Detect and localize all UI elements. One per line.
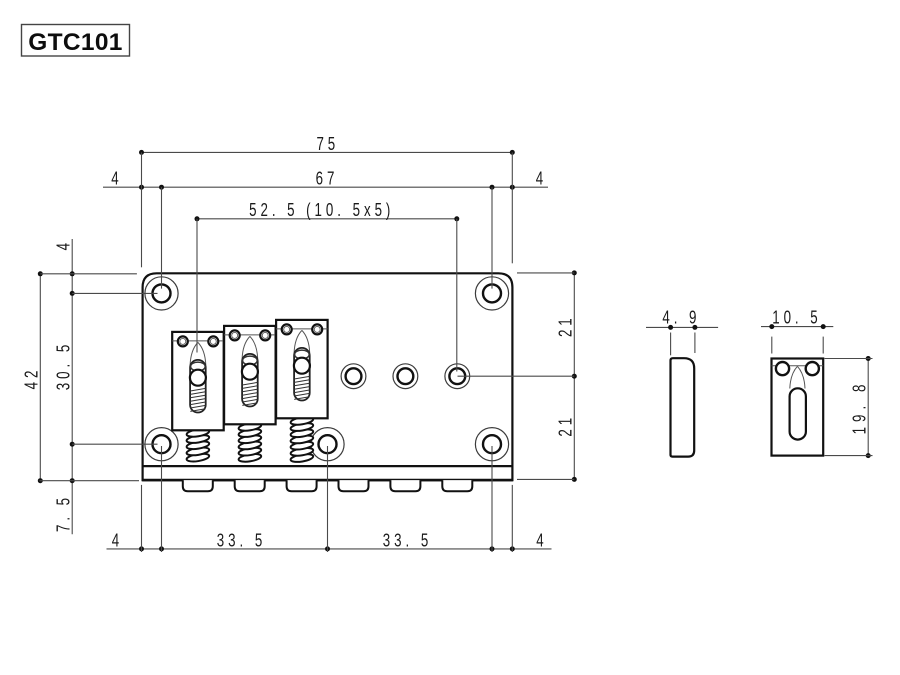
extension lines bottom: [142, 446, 513, 552]
svg-text:75: 75: [316, 134, 339, 155]
svg-text:67: 67: [316, 169, 339, 190]
GTC101 label box: [22, 25, 130, 57]
dim 4.9: [646, 307, 718, 355]
svg-text:19. 8: 19. 8: [850, 380, 871, 435]
intonation spring 2: [238, 422, 262, 463]
svg-text:52. 5 (10. 5x5): 52. 5 (10. 5x5): [249, 200, 394, 221]
string hole 6: [445, 364, 470, 389]
dim 19.8: [825, 356, 873, 458]
svg-text:GTC101: GTC101: [28, 29, 122, 56]
svg-text:30. 5: 30. 5: [54, 341, 75, 390]
svg-text:4: 4: [112, 530, 119, 551]
extension lines top: [142, 152, 513, 371]
mounting hole top-left: [145, 277, 178, 310]
dim 4 / 30.5 / 7.5 (left shared line): [54, 239, 75, 534]
svg-text:4: 4: [536, 168, 543, 189]
dim 10.5: [761, 307, 833, 353]
dim 21 / 21 (right): [556, 270, 577, 482]
string slot tab 5: [390, 480, 420, 491]
saddle top view: [772, 359, 824, 456]
svg-text:4: 4: [536, 530, 543, 551]
string slot tab 2: [235, 480, 265, 491]
string slot tab 4: [339, 480, 369, 491]
intonation spring 3: [290, 416, 314, 464]
string slot tab 6: [442, 480, 472, 491]
svg-text:21: 21: [556, 414, 577, 437]
mounting hole bottom-right: [475, 428, 508, 461]
dim 52.5 (10.5x5): [195, 200, 460, 221]
dim 42 (left): [22, 271, 43, 483]
plate bend line: [143, 465, 513, 467]
svg-text:21: 21: [556, 314, 577, 337]
svg-text:4: 4: [54, 243, 75, 250]
string hole 4: [341, 364, 366, 389]
extension lines right: [458, 273, 575, 480]
string slot tab 1: [183, 480, 213, 491]
plate bottom edge: [142, 479, 513, 482]
svg-text:10. 5: 10. 5: [772, 307, 821, 328]
svg-text:7. 5: 7. 5: [54, 494, 75, 532]
svg-text:42: 42: [22, 367, 43, 390]
saddle 2: [224, 326, 276, 424]
dim 75 (top): [139, 134, 515, 155]
string hole 5: [393, 364, 418, 389]
svg-text:4: 4: [111, 168, 118, 189]
string slot tab 3: [287, 480, 317, 491]
saddle 3: [276, 320, 328, 418]
dim 4 / 33.5 / 33.5 / 4 (bottom): [107, 530, 552, 551]
mounting hole top-right: [475, 277, 508, 310]
intonation spring 1: [186, 428, 210, 463]
dim 67 with 4/4 (top): [103, 168, 548, 189]
mounting hole bottom-left: [145, 428, 178, 461]
saddle side view: [671, 358, 695, 456]
bridge plate outline (front view): [143, 273, 513, 480]
svg-text:4. 9: 4. 9: [662, 307, 700, 328]
svg-text:33. 5: 33. 5: [383, 530, 432, 551]
mounting hole bottom-middle: [311, 428, 344, 461]
svg-text:33. 5: 33. 5: [217, 530, 266, 551]
saddle 1: [172, 332, 224, 430]
extension lines left: [40, 274, 158, 481]
